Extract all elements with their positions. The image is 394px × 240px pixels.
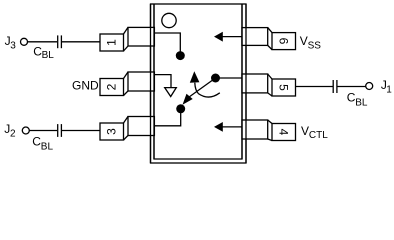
wire node B to pin 3 (internal)	[154, 110, 181, 126]
IC body wall lines overdraw	[150, 4, 152, 163]
svg-text:BL: BL	[42, 50, 55, 61]
svg-text:BL: BL	[355, 97, 368, 108]
switch blade arrowhead	[183, 94, 193, 105]
pin 3 lead	[100, 117, 154, 141]
label J2	[4, 122, 16, 140]
switch motion arc	[195, 83, 220, 97]
svg-text:6: 6	[277, 38, 291, 45]
switch blade wire	[190, 78, 216, 97]
wire pin 5 to C_BL	[296, 86, 334, 88]
connector J2 terminal	[22, 127, 29, 134]
label VCTL	[301, 124, 328, 141]
label J1	[381, 78, 392, 96]
switch pole dot	[211, 74, 220, 83]
label C_BL (J1 side)	[347, 90, 368, 108]
wire C_BL to J1	[337, 86, 366, 88]
arrow into pin 4 VCTL (internal)	[223, 126, 243, 128]
label C_BL (J2 side)	[32, 135, 53, 153]
arrow into pin 6 VSS (internal)	[223, 36, 243, 38]
svg-text:SS: SS	[308, 40, 322, 51]
capacitor C_BL (J1 side)	[332, 80, 334, 93]
capacitor C_BL (J2 side)	[57, 124, 59, 137]
pin 6 lead	[242, 28, 296, 50]
svg-text:3: 3	[10, 41, 16, 52]
pin 1 indicator circle	[162, 13, 176, 27]
wire pin 1 to node A (internal)	[154, 33, 180, 53]
pin 1 lead	[100, 27, 154, 51]
wire J2 to C_BL	[29, 130, 57, 132]
svg-text:2: 2	[105, 83, 119, 90]
label J3	[5, 34, 17, 52]
IC body U1 outer outline	[151, 4, 247, 163]
svg-text:CTL: CTL	[309, 130, 328, 141]
connector J1 terminal	[366, 83, 373, 90]
svg-text:BL: BL	[41, 142, 54, 153]
capacitor C_BL (J3 side)	[57, 35, 59, 48]
pin 2 lead	[100, 72, 154, 96]
wire J3 to C_BL	[28, 41, 58, 43]
svg-text:5: 5	[277, 84, 291, 91]
svg-text:1: 1	[386, 85, 392, 96]
wire pin 2 to ground triangle (internal)	[154, 75, 171, 88]
label VSS	[300, 34, 322, 52]
svg-text:3: 3	[105, 128, 119, 135]
wire C_BL to pin 3	[62, 130, 101, 132]
svg-text:2: 2	[10, 129, 16, 140]
label C_BL (J3 side)	[33, 45, 54, 61]
node B contact dot	[176, 104, 185, 113]
pin 5 lead	[242, 74, 296, 96]
connector J3 terminal	[21, 38, 28, 45]
IC body inner outline	[154, 4, 242, 159]
svg-text:1: 1	[105, 39, 119, 46]
svg-text:4: 4	[277, 129, 291, 136]
svg-text:V: V	[301, 124, 309, 138]
svg-text:V: V	[300, 34, 308, 48]
ground triangle (open)	[165, 88, 177, 97]
wire pole to pin 5	[216, 77, 243, 79]
svg-text:GND: GND	[72, 79, 99, 93]
node A junction dot	[176, 51, 185, 60]
switch motion arrowhead	[190, 71, 200, 83]
pin 4 lead	[242, 120, 296, 141]
wire C_BL to pin 1	[62, 41, 101, 43]
